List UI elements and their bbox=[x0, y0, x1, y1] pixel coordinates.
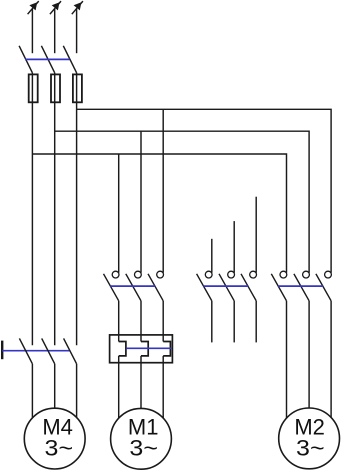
contactor K3 pole 2 contact bbox=[294, 271, 310, 301]
thermal overload F4 box bbox=[110, 335, 173, 363]
wire K2 pole2 bottom stub bbox=[233, 301, 235, 343]
fuse F2 bbox=[51, 74, 60, 102]
thermal overload F4 linkage bbox=[126, 347, 171, 349]
wire K2 pole3 top stub bbox=[255, 197, 257, 273]
wire K3 pole3 to motor M2 bbox=[330, 301, 332, 418]
motor M4 bbox=[24, 408, 85, 469]
switch Q4 pole 1 blade bbox=[19, 338, 32, 363]
motor M2 bbox=[279, 408, 340, 469]
fuse F1 bbox=[29, 74, 38, 102]
wire K2 pole1 bottom stub bbox=[211, 301, 213, 343]
thermal overload F4 heater 2 bbox=[141, 342, 148, 356]
wire L1 drop to switch bbox=[31, 9, 33, 53]
wire Q4 pole1 to motor M4 bbox=[31, 364, 33, 418]
contactor K2 pole 1 contact bbox=[197, 271, 213, 301]
bus line 2 (from pole2 to K3 pole2) bbox=[55, 131, 309, 273]
wire overload pole2 to motor M1 bbox=[140, 356, 142, 409]
bus line 3 (from pole1 to K3 pole1) bbox=[32, 154, 286, 273]
wire K1 pole1 to overload bbox=[118, 301, 120, 342]
wire K1 pole3 to overload bbox=[162, 301, 164, 342]
fuse F3 bbox=[73, 74, 82, 102]
thermal overload F4 heater 3 bbox=[163, 342, 170, 356]
contactor K1 pole 1 contact bbox=[104, 271, 120, 301]
disconnector Q0 pole 3 blade bbox=[63, 46, 76, 73]
svg-text:3~: 3~ bbox=[129, 436, 158, 461]
wire K1 pole2 to overload bbox=[140, 301, 142, 342]
wire pole3 fuse feed-through bbox=[76, 73, 78, 345]
contactor K3 pole 3 contact bbox=[316, 271, 332, 301]
wire K3 pole1 to motor M2 bbox=[286, 301, 288, 418]
contactor K2 pole 2 contact bbox=[219, 271, 235, 301]
switch Q4 linkage bbox=[2, 350, 69, 352]
wire bus2 tap to K1 pole2 bbox=[140, 131, 142, 273]
contactor K1 pole 3 contact bbox=[148, 271, 164, 301]
wire Q4 pole2 to motor M4 bbox=[54, 364, 56, 409]
contactor K2 linkage bbox=[203, 285, 248, 287]
contactor K2 pole 3 contact bbox=[241, 271, 257, 301]
disconnector Q0 pole 2 blade bbox=[41, 46, 54, 73]
contactor K1 linkage bbox=[110, 285, 155, 287]
wire bus1 tap to K1 pole3 bbox=[162, 109, 164, 272]
wire K2 pole1 top stub bbox=[211, 239, 213, 273]
wire L3 drop to switch bbox=[76, 9, 78, 53]
motor M1 bbox=[111, 408, 172, 469]
wire pole2 fuse feed-through bbox=[54, 73, 56, 345]
wire K2 pole2 top stub bbox=[233, 221, 235, 273]
supply arrow L2 bbox=[50, 1, 61, 14]
thermal overload F4 heater 1 bbox=[119, 342, 126, 356]
svg-text:3~: 3~ bbox=[45, 436, 74, 461]
contactor K3 linkage bbox=[278, 285, 323, 287]
wire overload pole3 to motor M1 bbox=[162, 356, 164, 418]
svg-text:3~: 3~ bbox=[296, 436, 325, 461]
wire pole1 fuse feed-through (switch to M4 contact) bbox=[31, 73, 33, 345]
wire overload pole1 to motor M1 bbox=[118, 356, 120, 418]
contactor K3 pole 1 contact bbox=[271, 271, 287, 301]
switch Q4 pole 2 blade bbox=[42, 338, 55, 363]
switch Q4 pole 3 blade bbox=[64, 338, 77, 363]
supply arrow L3 bbox=[72, 1, 83, 14]
bus line 1 (from pole3 to K3 pole3) bbox=[77, 109, 332, 272]
wire K2 pole3 bottom stub bbox=[255, 301, 257, 343]
wire Q4 pole3 to motor M4 bbox=[76, 364, 78, 418]
wire K3 pole2 to motor M2 bbox=[308, 301, 310, 408]
supply arrow L1 bbox=[28, 1, 39, 14]
switch Q4 anchor tick bbox=[1, 341, 3, 360]
contactor K1 pole 2 contact bbox=[126, 271, 142, 301]
disconnector Q0 linkage bbox=[25, 58, 70, 60]
wire L2 drop to switch bbox=[54, 9, 56, 53]
disconnector Q0 pole 1 blade bbox=[19, 46, 32, 73]
wire bus3 tap to K1 pole1 bbox=[118, 154, 120, 273]
